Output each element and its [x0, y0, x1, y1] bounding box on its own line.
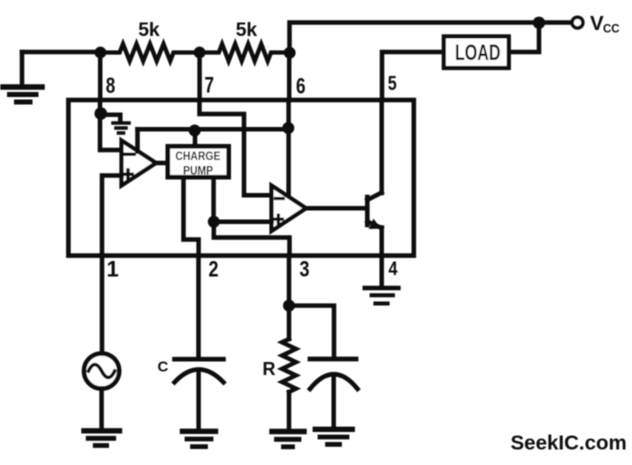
node J (pin 3 junction)	[283, 300, 295, 312]
wire pin 8 into box down to comparator minus input	[100, 100, 122, 150]
transistor Q1	[367, 193, 381, 230]
svg-text:PUMP: PUMP	[183, 166, 213, 178]
collector wire up to pin 5	[379, 100, 384, 193]
charge pump right output stub	[211, 180, 216, 223]
charge pump left output to pin 2	[184, 180, 199, 256]
svg-text:6: 6	[296, 74, 306, 99]
svg-text:5k: 5k	[138, 19, 160, 41]
wire node J to capacitor C2	[289, 306, 334, 357]
capacitor C	[175, 359, 224, 382]
svg-text:CC: CC	[603, 22, 620, 36]
wire capacitor C to ground G4	[196, 371, 201, 429]
AC source V1	[84, 353, 119, 388]
wire pin 1 down to AC source	[100, 256, 105, 353]
wire node H down to pin 3	[214, 222, 290, 256]
node B (top of pin 7)	[194, 47, 206, 59]
LOAD box	[444, 36, 509, 68]
charge pump label	[175, 151, 220, 178]
capacitor C2	[310, 359, 358, 389]
op-amp U1b (output op amp)	[272, 186, 307, 232]
svg-text:R: R	[263, 359, 276, 379]
emitter wire down through pin 4	[379, 228, 384, 286]
wire resistor R to ground G5	[287, 392, 292, 430]
ground G5 (resistor R)	[272, 432, 304, 447]
Vcc label	[590, 12, 620, 36]
pin 6 internal wire down to op-amp U1b	[286, 100, 291, 197]
wire ground G1 to node A	[22, 50, 100, 55]
wire pin 2 down to capacitor C	[196, 256, 201, 358]
wire op-amp U1b output to transistor base	[306, 206, 365, 211]
ground G4 (capacitor C)	[183, 431, 216, 446]
pin 7 internal wire to op-amp U1b minus input	[200, 100, 272, 195]
wire comparator output node up to rail	[135, 129, 140, 151]
svg-text:5k: 5k	[236, 19, 258, 41]
charge pump top stub	[193, 130, 198, 146]
svg-text:5: 5	[388, 73, 397, 95]
wire LOAD to pin 5	[382, 52, 444, 99]
svg-text:7: 7	[205, 73, 215, 98]
IC box U1	[68, 100, 413, 256]
svg-text:3: 3	[300, 257, 310, 282]
wire node A down to pin 8	[98, 53, 103, 101]
svg-text:SeekIC.com: SeekIC.com	[511, 432, 627, 455]
ground G6 (capacitor C2)	[315, 429, 352, 444]
charge pump box	[168, 146, 229, 177]
resistor R1 5k	[100, 44, 199, 61]
wire node C down to pin 6	[287, 53, 292, 100]
svg-text:LOAD: LOAD	[455, 40, 501, 65]
wire capacitor C2 to ground G6	[331, 375, 336, 427]
ground G1 (supply ground, top left)	[3, 52, 42, 102]
wire node B down to pin 7	[197, 53, 202, 101]
node F (charge pump top junction)	[189, 125, 201, 137]
svg-text:CHARGE: CHARGE	[175, 151, 220, 163]
wire pin 3 down to resistor R	[287, 256, 292, 340]
wire node D to Vcc terminal	[539, 20, 571, 25]
node D (Vcc junction)	[533, 17, 545, 29]
svg-text:1: 1	[107, 257, 119, 282]
wire AC source to ground G3	[99, 389, 104, 429]
node H (charge pump output junction)	[208, 216, 220, 228]
svg-text:4: 4	[389, 259, 398, 280]
svg-text:8: 8	[106, 73, 116, 98]
svg-text:2: 2	[209, 257, 219, 282]
svg-text:V: V	[590, 12, 604, 35]
node A (top of pin 8)	[95, 47, 107, 59]
resistor R2 5k	[200, 44, 290, 61]
node C (top of pin 6)	[284, 47, 296, 59]
ground G2 (pin 4)	[365, 288, 399, 304]
op-amp U1a (input comparator)	[122, 141, 157, 186]
ground G3 (AC source)	[84, 431, 120, 446]
svg-text:C: C	[158, 359, 169, 376]
wire node H to op-amp U1b plus input	[214, 219, 272, 224]
wire pin 1 up to comparator plus input	[102, 176, 122, 256]
internal reference ground (mini ground by pin 8)	[101, 115, 129, 133]
wire comparator output to charge pump	[156, 161, 168, 166]
node G (pin 6 internal junction)	[282, 122, 294, 134]
node E (pin 8 internal junction)	[95, 107, 108, 120]
Vcc terminal circle	[572, 17, 583, 28]
wire pin 6 up and right to Vcc rail	[290, 23, 540, 53]
wire rail to pin 6 internal node	[138, 127, 289, 132]
wire node D down to LOAD	[509, 23, 539, 52]
resistor R	[282, 339, 296, 392]
